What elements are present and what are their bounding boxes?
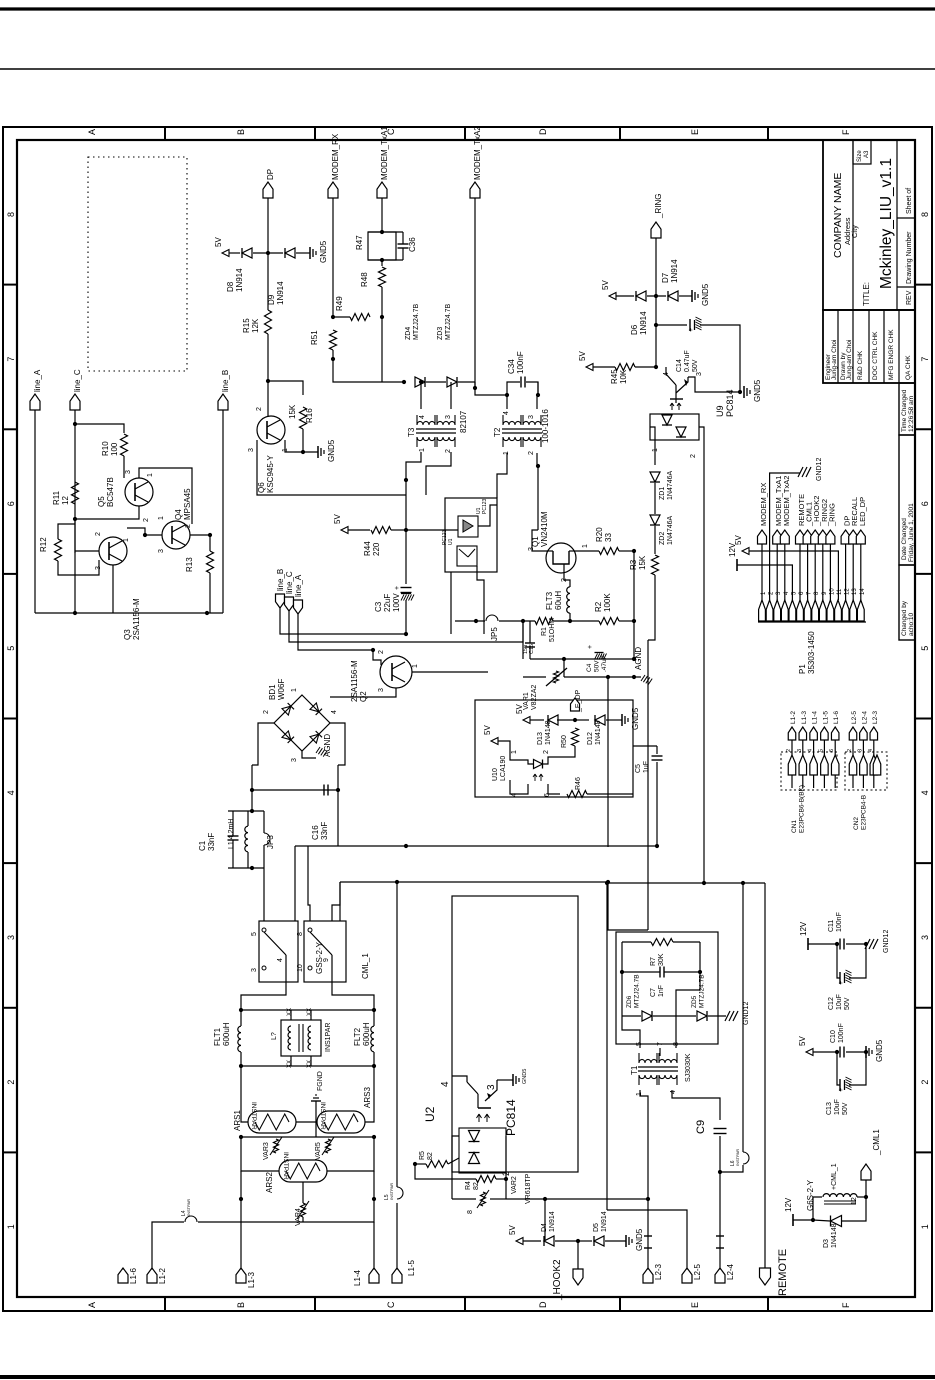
wire ARS mid tap down (315, 1122, 317, 1137)
wire ZD3 to TxA2 node (458, 381, 475, 383)
title block date changed cell (899, 435, 915, 565)
svg-text:E23PCB6-B(BK): E23PCB6-B(BK) (799, 785, 806, 833)
svg-text:DP: DP (266, 169, 275, 180)
svg-text:1: 1 (419, 448, 426, 452)
wire R51 down to zener bus (333, 350, 404, 382)
wire C16 right rail down to relay pin3 (337, 790, 339, 846)
svg-text:MTZJ24.7B: MTZJ24.7B (445, 303, 452, 340)
wire C11 to GND12 (846, 943, 866, 945)
ground GND5 at Q6 (317, 446, 319, 458)
svg-text:50V: 50V (842, 1102, 849, 1115)
svg-text:L1 4.2mH: L1 4.2mH (228, 819, 235, 849)
wire MODEM_TxA2 down (474, 198, 476, 388)
wire ZD2-R3 (654, 526, 656, 554)
svg-text:REMOTE: REMOTE (777, 1249, 789, 1296)
wire VAR2 row (452, 1198, 476, 1200)
port L1-3 (236, 1268, 246, 1283)
wire VAR4 taps (302, 1182, 304, 1203)
svg-text:33: 33 (604, 533, 613, 542)
svg-text:+CML_1: +CML_1 (831, 1163, 838, 1190)
svg-text:ZD3: ZD3 (437, 327, 444, 340)
wire D3 right to node (842, 1197, 866, 1221)
wire Q1 gate left (532, 530, 548, 551)
svg-text:INSTPAR: INSTPAR (282, 1152, 289, 1180)
opto U1 PC123 outer box (445, 498, 497, 572)
wire Q2 collector down (330, 688, 396, 697)
svg-text:XX: XX (287, 1008, 293, 1016)
wire Q6 collector down-left (257, 440, 406, 495)
wire 5V to D6 (616, 295, 634, 297)
wire 5V to C10 (813, 1051, 837, 1053)
svg-text:0.47uF: 0.47uF (684, 350, 691, 372)
svg-text:V82ZA2: V82ZA2 (531, 685, 538, 710)
svg-text:Q6: Q6 (257, 482, 266, 493)
svg-text:PC123: PC123 (482, 498, 488, 514)
wire to R10 (75, 424, 124, 433)
relay GSS-2-Y CML_1 box A (259, 921, 298, 982)
ground GND5 filter (865, 1046, 867, 1058)
U2 block outline box (452, 896, 578, 1172)
jumper L6 INS1PAR (743, 1152, 749, 1164)
port RECALL at P1 pin 13 (849, 530, 858, 544)
wire lower bus to L2-5 rail (606, 883, 608, 1210)
svg-text:XX: XX (307, 1060, 313, 1068)
rail below filters (241, 1065, 374, 1067)
svg-text:5: 5 (636, 1042, 643, 1046)
svg-text:1: 1 (511, 750, 518, 754)
wire node to _CML1 (865, 1180, 867, 1197)
wire L2-3 tail (647, 1199, 649, 1268)
power 5V for U10 (491, 738, 498, 745)
wire L2-4 rail down (719, 1172, 721, 1268)
svg-text:8: 8 (6, 212, 16, 217)
svg-text:R47: R47 (355, 235, 364, 250)
port line_B mid (276, 594, 285, 608)
svg-text:MODEM_RX: MODEM_RX (331, 133, 340, 180)
port REMOTE at P1 pin 6 (796, 530, 805, 544)
resistor R20 33 (599, 548, 619, 555)
wire L1-2 up to L4 (152, 1222, 184, 1268)
svg-text:8: 8 (467, 1210, 474, 1214)
svg-text:9: 9 (323, 958, 330, 962)
svg-text:C34: C34 (507, 359, 516, 374)
svg-text:GND12: GND12 (816, 458, 823, 481)
svg-text:4: 4 (868, 749, 874, 752)
svg-text:5V: 5V (333, 514, 342, 524)
svg-text:1: 1 (147, 473, 154, 477)
wire R10 to Q5 (123, 456, 125, 478)
svg-text:1N4148: 1N4148 (545, 720, 552, 745)
capacitor C15 (525, 642, 535, 644)
svg-text:Sheet of: Sheet of (906, 188, 913, 214)
svg-text:_CML1: _CML1 (872, 1129, 881, 1156)
svg-text:W06F: W06F (277, 679, 286, 700)
svg-text:3: 3 (378, 688, 385, 692)
zener ZD2 1N4746A (650, 515, 660, 525)
svg-text:10uF: 10uF (836, 994, 843, 1010)
opto U1a PC123 (458, 516, 478, 537)
svg-text:B: B (236, 129, 246, 135)
svg-text:R49: R49 (335, 296, 344, 311)
varistor VAR4 (301, 1203, 306, 1217)
wire C7 node down to T1 (676, 972, 700, 1048)
svg-text:VAR2: VAR2 (511, 1176, 518, 1194)
svg-text:33nF: 33nF (320, 822, 329, 840)
svg-text:T3: T3 (407, 427, 416, 437)
capacitor C16 33nF (323, 785, 325, 796)
wire rail to AGND row (563, 659, 565, 677)
svg-text:Jung-am Choi: Jung-am Choi (846, 340, 853, 380)
svg-text:2: 2 (847, 749, 853, 752)
svg-text:3: 3 (248, 448, 255, 452)
wire AGND rail junction (655, 844, 659, 848)
node DP/diodes (266, 251, 270, 255)
svg-text:MODEM_TxA2: MODEM_TxA2 (473, 126, 482, 180)
power 5V for D13 (523, 717, 530, 724)
svg-text:220: 220 (372, 542, 381, 556)
page top rule (0, 7, 935, 10)
svg-text:R5: R5 (419, 1151, 426, 1160)
svg-text:line_A: line_A (33, 369, 42, 392)
svg-text:3: 3 (528, 415, 535, 419)
svg-text:15K: 15K (288, 404, 297, 419)
svg-text:100: 100 (110, 442, 119, 456)
wire 5V to U10 (498, 741, 510, 752)
wire L1-5 up through L5 (396, 1203, 398, 1268)
title block checker columns (823, 310, 915, 383)
svg-text:U1: U1 (448, 538, 454, 545)
wire hook rail right (545, 1198, 648, 1200)
diode D8 1N914 (242, 248, 252, 258)
svg-text:E23PCB4-B: E23PCB4-B (861, 795, 868, 830)
port MODEM_RX (328, 182, 338, 198)
ground AGND mid (641, 675, 645, 681)
svg-text:L1-4: L1-4 (812, 711, 819, 724)
wire Q4 base to Q3 (127, 528, 162, 535)
wire line_A mid down-right (298, 614, 373, 650)
svg-text:2: 2 (143, 518, 150, 522)
connector P1 35303-1450 (758, 621, 866, 623)
svg-text:50V: 50V (692, 359, 699, 372)
svg-text:LED_DP: LED_DP (858, 497, 867, 526)
rail above filters (241, 1009, 374, 1011)
zener ZD4 MTZJ24.7B (415, 377, 425, 387)
wire U9 led pins (650, 427, 655, 440)
svg-text:3: 3 (125, 470, 132, 474)
svg-text:30K: 30K (658, 953, 665, 966)
resistor R48 (379, 267, 386, 287)
zone letter dividers top (164, 127, 166, 140)
wire box right to C5 top (633, 745, 657, 747)
svg-text:Mckinley_LIU_v1.1: Mckinley_LIU_v1.1 (878, 158, 895, 289)
capacitor C1 33nF (228, 835, 239, 837)
wire VAR2 node to HOOK rail (506, 1198, 545, 1200)
wire bus upper left drop (294, 846, 296, 921)
wire 5V to D13 (530, 719, 544, 721)
wire R12 top (58, 524, 75, 539)
port LED_DP at P1 pin 14 (856, 530, 865, 544)
svg-text:ZD2: ZD2 (659, 532, 666, 545)
wire bridge left down to C16 rail (252, 765, 338, 790)
svg-text:acho:10: acho:10 (908, 612, 915, 636)
port REMOTE (760, 1268, 771, 1285)
capacitor C14 0.47uF 50V (656, 324, 687, 326)
svg-text:+: + (587, 645, 594, 649)
svg-text:1N914: 1N914 (639, 311, 648, 335)
wire D7 to GND5 (679, 295, 692, 297)
svg-text:2: 2 (786, 749, 792, 752)
svg-text:100V: 100V (392, 593, 401, 612)
wire C9 node to L6 (720, 1165, 743, 1172)
svg-text:35303-1450: 35303-1450 (807, 631, 816, 674)
wire R50 down (560, 746, 575, 757)
ground GND12 in box (725, 1011, 730, 1021)
wire 5V into P1 (749, 551, 838, 600)
title block size cell (853, 140, 871, 164)
resistor R13 (207, 551, 214, 573)
svg-text:Q2: Q2 (359, 691, 368, 702)
svg-text:D7: D7 (661, 272, 670, 283)
svg-text:C1: C1 (198, 840, 207, 851)
port _HOOK2 (573, 1269, 583, 1285)
port line_B (218, 394, 228, 410)
svg-text:T1: T1 (630, 1065, 639, 1075)
zener ZD5 MTZJ24.7B (697, 1011, 707, 1021)
svg-text:1: 1 (123, 538, 130, 542)
svg-text:D: D (538, 128, 548, 135)
svg-text:Friday, June 1, 2001: Friday, June 1, 2001 (908, 503, 915, 562)
svg-text:R7: R7 (650, 957, 657, 966)
wire line_B mid down-right (280, 608, 406, 634)
resistor R4 82 (476, 1176, 496, 1183)
wire relay box B pin9 down (332, 955, 374, 1010)
power 5V for D8 (222, 250, 229, 257)
title block QA/time row (899, 383, 915, 435)
svg-text:2: 2 (543, 750, 550, 754)
svg-text:12: 12 (851, 1197, 858, 1205)
wire U9 pin1 down (654, 440, 656, 465)
svg-text:1N4148: 1N4148 (595, 720, 602, 745)
title block REV / Drawing Number / Sheet cells (897, 140, 915, 310)
svg-text:1: 1 (412, 664, 419, 668)
title block changed by cell (899, 565, 915, 640)
ground GND12 at P1 (798, 467, 803, 477)
wire 5V to R44 (348, 529, 370, 531)
svg-text:line_B: line_B (276, 569, 285, 591)
svg-text:4: 4 (920, 790, 930, 795)
wire coil right to node (857, 1196, 866, 1198)
svg-text:L1-3: L1-3 (801, 711, 808, 724)
svg-text:3: 3 (251, 968, 258, 972)
bar 12V at P1 (736, 559, 738, 571)
svg-text:82107: 82107 (459, 410, 468, 433)
svg-text:C14: C14 (676, 359, 683, 372)
capacitor C34 100nF (520, 377, 522, 388)
wire led left side (452, 1136, 459, 1164)
wire line_B down (222, 410, 224, 613)
svg-text:R46: R46 (575, 777, 582, 790)
svg-text:D8: D8 (226, 281, 235, 292)
svg-text:L?: L? (271, 1032, 278, 1040)
diode D6 1N914 (636, 291, 646, 301)
svg-text:5: 5 (818, 749, 824, 752)
svg-text:BD1: BD1 (268, 684, 277, 700)
svg-text:1N914: 1N914 (670, 259, 679, 283)
connector CN2 E23PCB4-B (845, 752, 887, 790)
svg-text:2: 2 (920, 1080, 930, 1085)
wire bridge pin3 to AGND (302, 751, 316, 758)
opto U1b PC123 (457, 546, 477, 566)
svg-text:ZD1: ZD1 (659, 487, 666, 500)
svg-text:L2-5: L2-5 (693, 1263, 702, 1280)
ground GND5 at U9 (743, 386, 745, 398)
wire T3 pin2 down (426, 452, 451, 495)
svg-text:F: F (841, 1302, 851, 1308)
wire R48 to node (381, 287, 383, 317)
capacitor C13 10uF 50V electrolytic (837, 1052, 840, 1085)
svg-text:XX: XX (307, 1008, 313, 1016)
jumper JP5 (455, 620, 485, 622)
svg-text:R45: R45 (610, 369, 619, 384)
svg-text:Size: Size (857, 150, 863, 162)
svg-text:ZD5: ZD5 (691, 995, 698, 1008)
svg-text:C3: C3 (374, 601, 383, 612)
svg-text:R2: R2 (594, 601, 603, 612)
svg-text:R13: R13 (185, 557, 194, 572)
wire D5 to GND5 (605, 1240, 626, 1242)
svg-text:C16: C16 (311, 825, 320, 840)
svg-text:C11: C11 (828, 920, 835, 932)
wire Q2 emitter right (412, 671, 488, 673)
wire Q3 base (75, 550, 99, 552)
wire node down (74, 519, 76, 553)
svg-text:1N4746A: 1N4746A (667, 470, 674, 500)
svg-text:600uH: 600uH (222, 1022, 231, 1046)
connector CN1 E23PCB6-B(BK) (781, 752, 837, 790)
resistor R15 12K (265, 310, 272, 334)
dashed outline box (88, 157, 187, 371)
svg-text:82: 82 (427, 1152, 434, 1160)
port _RING2 at P1 pin 9 (818, 530, 827, 544)
wire R13 top to Q4 (190, 535, 210, 551)
port MODEM_TxA2 (470, 182, 480, 198)
wire U9 output down (675, 399, 677, 403)
svg-text:5V: 5V (515, 704, 524, 714)
svg-text:L1-6: L1-6 (129, 1267, 138, 1284)
bar 12V filter (807, 938, 809, 950)
port MODEM_TxA1 at P1 pin 3 (773, 530, 782, 544)
svg-text:8: 8 (673, 1042, 680, 1046)
svg-text:12:26:58 am: 12:26:58 am (908, 396, 915, 432)
double tick L2-4 (716, 1235, 724, 1237)
transformer T1 SJ3030K (638, 1066, 678, 1068)
node R49/R51 (331, 315, 335, 319)
svg-text:INSTPAR: INSTPAR (389, 1183, 394, 1200)
svg-text:GND5: GND5 (701, 283, 710, 306)
wire _RING node down (655, 296, 657, 325)
wire 5V to R45 (593, 366, 615, 368)
wire 5V to D4 (523, 1240, 541, 1242)
svg-text:50V: 50V (844, 997, 851, 1010)
wire line_C mid down-right (289, 611, 523, 642)
svg-text:+: + (838, 981, 845, 985)
resistor R12 (55, 539, 62, 561)
svg-text:4: 4 (277, 958, 284, 962)
svg-text:10: 10 (297, 964, 304, 972)
svg-text:AGND: AGND (634, 647, 643, 670)
transistor Q2 2SA1156-M (380, 656, 412, 688)
svg-text:D13: D13 (537, 732, 544, 745)
ground GND5 at D9 (309, 247, 311, 259)
wire U9 pin2 long down (703, 560, 705, 883)
svg-text:R3: R3 (629, 559, 638, 570)
svg-text:GND12: GND12 (883, 930, 890, 953)
node junctions on bottom bus (73, 611, 77, 615)
wire T2 pin4 up (506, 395, 508, 409)
svg-text:1N914: 1N914 (276, 281, 285, 305)
ground FGND (315, 1101, 317, 1122)
svg-text:1: 1 (920, 1224, 930, 1229)
capacitor C9 (714, 1128, 727, 1130)
svg-text:7: 7 (6, 357, 16, 362)
wire line_C down (74, 410, 76, 613)
resistor R16 15K (300, 407, 307, 429)
capacitor C4 0.47uF 50V (595, 652, 604, 654)
wire node to _HOOK2 and D5 (577, 1241, 579, 1269)
svg-text:5V: 5V (214, 237, 223, 247)
resistor R44 220 (371, 527, 391, 534)
svg-text:1N914: 1N914 (235, 268, 244, 292)
svg-text:_RING: _RING (827, 503, 836, 527)
wire across to C9 node (607, 882, 765, 884)
svg-text:_RING: _RING (654, 194, 663, 219)
svg-text:GND5: GND5 (753, 379, 762, 402)
wire C10 to GND5 (846, 1051, 866, 1053)
svg-text:Q5: Q5 (97, 496, 106, 507)
resistor R11 12 (72, 482, 79, 504)
resistor R50 (572, 728, 579, 746)
svg-text:2: 2 (185, 524, 192, 528)
wire T3 pin3 up (450, 382, 452, 409)
transformer T3 82107 (416, 428, 456, 430)
wire C34 node down long (537, 382, 539, 395)
svg-text:E: E (690, 1302, 700, 1308)
svg-text:4: 4 (440, 1081, 451, 1087)
svg-text:GND5: GND5 (327, 439, 336, 462)
svg-text:line_A: line_A (294, 574, 303, 597)
wire C16 rail to C1 block (251, 790, 253, 811)
svg-text:.47uF: .47uF (601, 655, 608, 672)
svg-text:MTZJ24.7B: MTZJ24.7B (634, 974, 641, 1008)
svg-text:C15: C15 (529, 644, 535, 654)
wire R15 to Q6 base node (267, 334, 269, 417)
svg-text:C12: C12 (828, 997, 835, 1010)
port line_A (30, 394, 40, 410)
node TxA2/ZD3 (473, 386, 477, 390)
U10 block outline box (475, 700, 633, 797)
diode D12 1N4148 (595, 715, 605, 725)
svg-text:P1: P1 (798, 664, 807, 674)
node R51 bottom (331, 357, 335, 361)
wire D13 to node (557, 719, 575, 721)
svg-text:R1: R1 (541, 627, 548, 636)
wire U2 pin4 notch (452, 1076, 467, 1082)
wire ZD1-ZD2 (654, 483, 656, 514)
svg-text:L2-3: L2-3 (654, 1263, 663, 1280)
port L2-3 (643, 1268, 653, 1283)
svg-text:3: 3 (857, 749, 863, 752)
svg-text:D9: D9 (267, 294, 276, 305)
